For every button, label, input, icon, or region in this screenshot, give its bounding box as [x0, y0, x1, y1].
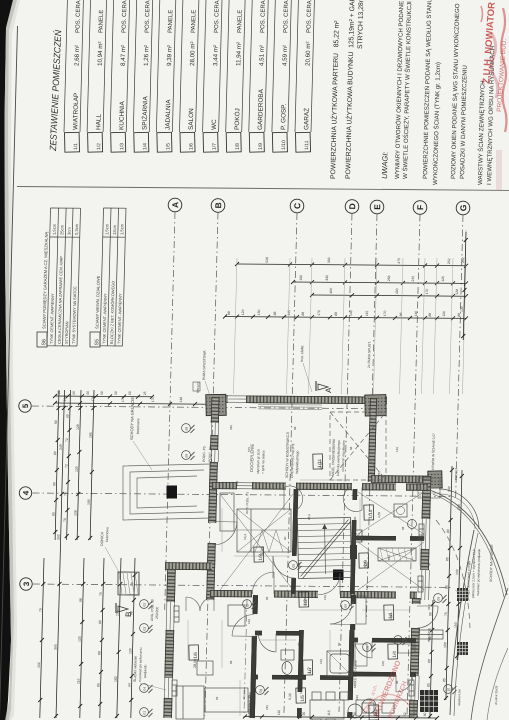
- svg-text:330: 330: [229, 425, 233, 430]
- svg-text:88: 88: [428, 313, 432, 317]
- svg-text:115: 115: [287, 310, 291, 316]
- svg-text:88: 88: [293, 426, 297, 430]
- svg-text:MOŻL. PRZENIESIENIA: MOŻL. PRZENIESIENIA: [330, 438, 336, 476]
- svg-text:DONICA: DONICA: [100, 531, 104, 546]
- svg-text:chodnikowy 0,125m: chodnikowy 0,125m: [247, 692, 252, 718]
- svg-text:02: 02: [143, 603, 147, 607]
- svg-text:88: 88: [334, 312, 338, 316]
- svg-text:PODEST: PODEST: [454, 467, 458, 480]
- svg-text:365: 365: [54, 644, 58, 650]
- svg-text:150: 150: [257, 309, 261, 315]
- svg-text:11,94 m²: 11,94 m²: [235, 42, 243, 66]
- svg-text:140: 140: [349, 310, 353, 316]
- svg-text:60: 60: [423, 712, 427, 716]
- svg-text:B: B: [124, 611, 133, 617]
- svg-text:32,5: 32,5: [427, 604, 431, 610]
- svg-text:88: 88: [301, 312, 305, 316]
- svg-text:140: 140: [447, 486, 451, 492]
- svg-text:1,26 m²: 1,26 m²: [143, 45, 151, 66]
- svg-text:120: 120: [441, 276, 445, 282]
- svg-text:90: 90: [428, 612, 432, 616]
- svg-text:1/5: 1/5: [165, 143, 171, 150]
- svg-text:PANELE: PANELE: [168, 10, 175, 33]
- svg-text:STRYCH 13,28m²: STRYCH 13,28m²: [357, 0, 365, 49]
- svg-text:85: 85: [427, 683, 431, 687]
- svg-text:01: 01: [143, 711, 147, 715]
- svg-text:190: 190: [299, 275, 303, 281]
- svg-text:128: 128: [74, 510, 78, 516]
- svg-text:POS. CERAM.: POS. CERAM.: [306, 0, 313, 33]
- svg-text:UWAGI:: UWAGI:: [380, 151, 390, 179]
- svg-text:60: 60: [66, 414, 70, 418]
- svg-text:528: 528: [265, 257, 269, 263]
- svg-text:160: 160: [455, 569, 459, 575]
- svg-text:90: 90: [283, 536, 287, 540]
- svg-text:4,51 m²: 4,51 m²: [258, 45, 266, 66]
- svg-text:170: 170: [91, 396, 95, 402]
- svg-text:1/11: 1/11: [304, 140, 310, 150]
- svg-text:03: 03: [143, 627, 147, 631]
- svg-text:5: 5: [21, 403, 30, 408]
- svg-text:WYS. PODŁ. P3: WYS. PODŁ. P3: [245, 492, 250, 514]
- svg-text:1/10: 1/10: [368, 509, 373, 519]
- svg-text:140: 140: [414, 311, 418, 317]
- svg-text:120: 120: [355, 695, 359, 700]
- svg-text:STYROPIAN: STYROPIAN: [64, 321, 70, 344]
- svg-text:88: 88: [349, 446, 353, 450]
- svg-text:120: 120: [128, 648, 132, 654]
- svg-text:10,94 m²: 10,94 m²: [97, 41, 105, 66]
- svg-text:14,4: 14,4: [243, 533, 247, 540]
- svg-text:164: 164: [299, 689, 303, 694]
- svg-text:1/8: 1/8: [235, 143, 241, 150]
- svg-text:116: 116: [77, 678, 81, 684]
- svg-text:85: 85: [96, 683, 100, 687]
- svg-text:88: 88: [227, 311, 231, 315]
- svg-text:182: 182: [114, 676, 118, 682]
- svg-text:opaska 0,5m: opaska 0,5m: [457, 688, 461, 706]
- svg-text:12cm: 12cm: [112, 224, 117, 235]
- svg-text:1/3: 1/3: [119, 143, 125, 150]
- svg-text:+ tynk na siatce: + tynk na siatce: [261, 450, 266, 474]
- svg-text:80: 80: [98, 620, 102, 624]
- svg-text:80: 80: [446, 529, 450, 533]
- svg-text:1,5cm: 1,5cm: [119, 223, 124, 235]
- svg-text:88: 88: [401, 526, 405, 530]
- svg-text:4,51: 4,51: [363, 561, 367, 568]
- svg-text:betonowa: betonowa: [105, 527, 109, 542]
- svg-text:330: 330: [327, 257, 331, 263]
- svg-text:35: 35: [302, 712, 306, 716]
- svg-text:1/7: 1/7: [212, 143, 218, 150]
- svg-text:PODC. P5: PODC. P5: [202, 446, 206, 462]
- svg-text:108: 108: [443, 642, 447, 648]
- svg-text:120: 120: [75, 466, 79, 472]
- svg-text:90: 90: [337, 642, 341, 646]
- svg-text:128: 128: [76, 424, 80, 430]
- svg-text:20,60 m²: 20,60 m²: [305, 41, 313, 66]
- svg-text:88: 88: [427, 659, 431, 663]
- svg-text:120: 120: [247, 619, 251, 624]
- svg-text:28,00 m²: 28,00 m²: [189, 41, 197, 66]
- svg-text:88: 88: [229, 660, 233, 664]
- svg-text:25,0: 25,0: [307, 514, 311, 520]
- svg-text:215: 215: [411, 276, 415, 282]
- svg-text:1,5cm: 1,5cm: [104, 223, 109, 235]
- svg-text:575: 575: [247, 447, 251, 452]
- svg-text:170: 170: [151, 396, 155, 402]
- svg-text:25cm: 25cm: [59, 224, 64, 235]
- svg-text:162: 162: [37, 662, 41, 668]
- svg-text:170: 170: [425, 289, 429, 295]
- svg-text:1/2: 1/2: [96, 143, 102, 150]
- svg-text:250/200: 250/200: [155, 607, 159, 619]
- svg-text:GARDEROBA: GARDEROBA: [257, 88, 265, 130]
- svg-text:ANG. POŁ. 53: ANG. POŁ. 53: [150, 599, 155, 621]
- svg-text:88: 88: [395, 680, 399, 684]
- svg-text:F: F: [415, 205, 425, 210]
- svg-text:1/9: 1/9: [258, 143, 264, 150]
- svg-text:245: 245: [265, 705, 269, 710]
- svg-text:148: 148: [179, 397, 183, 403]
- svg-text:262: 262: [56, 534, 60, 540]
- svg-text:90: 90: [411, 646, 415, 650]
- svg-text:B: B: [213, 202, 223, 208]
- svg-text:85: 85: [52, 512, 56, 516]
- svg-text:OTWÓR W ŚCIANIE 0,07: OTWÓR W ŚCIANIE 0,07: [430, 433, 436, 470]
- svg-text:SCHODY NA GRUNCIE: SCHODY NA GRUNCIE: [129, 397, 135, 440]
- svg-text:06: 06: [344, 604, 348, 608]
- svg-text:170: 170: [383, 310, 387, 316]
- svg-text:3,44 m²: 3,44 m²: [212, 45, 220, 66]
- svg-text:330: 330: [325, 275, 329, 281]
- svg-text:253: 253: [235, 481, 239, 486]
- svg-text:475: 475: [397, 258, 401, 264]
- svg-text:05: 05: [292, 564, 296, 568]
- svg-text:120: 120: [442, 311, 446, 317]
- svg-text:4: 4: [21, 490, 30, 495]
- svg-text:144: 144: [63, 396, 67, 402]
- svg-text:105: 105: [381, 661, 385, 666]
- svg-text:09: 09: [437, 597, 441, 601]
- svg-text:1/6: 1/6: [189, 143, 195, 150]
- svg-text:115: 115: [327, 710, 331, 716]
- svg-text:SALON: SALON: [188, 108, 196, 130]
- svg-text:130: 130: [460, 306, 464, 312]
- svg-text:120: 120: [241, 309, 245, 315]
- svg-text:185: 185: [89, 432, 93, 438]
- svg-text:30: 30: [353, 712, 357, 716]
- svg-text:120: 120: [319, 659, 323, 664]
- svg-text:88: 88: [297, 642, 301, 646]
- svg-text:ŚLĄSKI niebieski: ŚLĄSKI niebieski: [132, 656, 138, 682]
- svg-text:115: 115: [365, 311, 369, 317]
- svg-text:chodnik 35x35: chodnik 35x35: [494, 685, 498, 705]
- svg-text:POS. CERAM.: POS. CERAM.: [145, 0, 152, 33]
- svg-text:76: 76: [38, 608, 42, 612]
- svg-text:WC: WC: [211, 119, 218, 130]
- svg-text:105: 105: [365, 585, 369, 590]
- svg-text:betonowe: betonowe: [136, 418, 140, 434]
- svg-text:9,39 m²: 9,39 m²: [166, 45, 174, 66]
- svg-text:4,59: 4,59: [377, 511, 381, 518]
- svg-text:80: 80: [445, 557, 449, 561]
- svg-text:3: 3: [22, 581, 31, 586]
- svg-text:3cm: 3cm: [67, 227, 72, 235]
- svg-text:85: 85: [442, 678, 446, 682]
- svg-text:90: 90: [52, 482, 56, 486]
- svg-text:POS. CERAM.: POS. CERAM.: [260, 0, 267, 33]
- svg-text:88: 88: [273, 311, 277, 315]
- svg-text:72: 72: [65, 438, 69, 442]
- svg-text:08: 08: [366, 646, 370, 650]
- svg-text:1/4: 1/4: [142, 143, 148, 150]
- svg-text:88: 88: [427, 562, 431, 566]
- svg-text:70: 70: [63, 518, 67, 522]
- svg-text:4,59 m²: 4,59 m²: [282, 45, 290, 66]
- svg-text:88: 88: [297, 562, 301, 566]
- svg-text:80: 80: [445, 585, 449, 589]
- svg-text:60: 60: [114, 391, 118, 395]
- svg-text:S5: S5: [94, 339, 100, 346]
- svg-text:JADALNIA: JADALNIA: [165, 99, 173, 130]
- svg-text:POS. CERAM.: POS. CERAM.: [214, 0, 221, 33]
- svg-text:258: 258: [387, 275, 391, 281]
- svg-text:88: 88: [97, 651, 101, 655]
- svg-text:120: 120: [78, 636, 82, 642]
- svg-text:70: 70: [99, 592, 103, 596]
- svg-text:2,68 m²: 2,68 m²: [74, 45, 82, 66]
- svg-text:95: 95: [265, 596, 269, 600]
- svg-text:obrzeże: obrzeże: [242, 689, 246, 700]
- svg-text:A: A: [324, 387, 333, 393]
- svg-text:25: 25: [143, 391, 147, 395]
- svg-text:75: 75: [64, 492, 68, 496]
- svg-text:90: 90: [54, 420, 58, 424]
- svg-text:400: 400: [329, 288, 333, 294]
- svg-text:8,47 m²: 8,47 m²: [120, 45, 128, 66]
- svg-text:262: 262: [461, 257, 465, 263]
- svg-text:1/6: 1/6: [193, 652, 198, 659]
- svg-text:190: 190: [87, 499, 91, 505]
- svg-text:PANELE: PANELE: [191, 10, 198, 33]
- svg-text:Inst. elektr.: Inst. elektr.: [300, 345, 304, 362]
- svg-text:WIATROŁAP: WIATROŁAP: [72, 93, 80, 130]
- svg-text:1/5: 1/5: [300, 695, 305, 702]
- svg-text:120: 120: [323, 595, 327, 600]
- svg-text:E: E: [372, 204, 382, 210]
- svg-text:G: G: [458, 204, 468, 211]
- svg-text:D: D: [347, 203, 357, 209]
- svg-text:98: 98: [79, 598, 83, 602]
- svg-text:64: 64: [127, 683, 131, 687]
- svg-text:1,5cm: 1,5cm: [52, 223, 57, 235]
- svg-text:S6: S6: [41, 339, 47, 346]
- svg-text:C: C: [292, 203, 302, 209]
- svg-text:WEJŚCIE: WEJŚCIE: [426, 628, 431, 642]
- svg-text:POS. CERAM.: POS. CERAM.: [283, 0, 290, 33]
- svg-text:0f: 0f: [246, 604, 250, 607]
- svg-text:2,68: 2,68: [389, 613, 393, 620]
- svg-text:249: 249: [59, 444, 63, 450]
- svg-text:n/d komin regulacyjny: n/d komin regulacyjny: [341, 440, 346, 472]
- svg-text:170: 170: [121, 396, 125, 402]
- svg-text:P. GOSP.: P. GOSP.: [280, 103, 288, 130]
- svg-text:28,00: 28,00: [193, 659, 197, 668]
- svg-text:20,60: 20,60: [319, 461, 323, 470]
- svg-text:MEBLE KUCHENNE: MEBLE KUCHENNE: [353, 660, 358, 688]
- svg-text:90: 90: [353, 516, 357, 520]
- svg-text:POS. CERAM.: POS. CERAM.: [75, 0, 82, 33]
- svg-text:88: 88: [399, 312, 403, 316]
- svg-text:RW120: RW120: [196, 382, 200, 393]
- svg-text:07: 07: [397, 639, 401, 643]
- svg-text:PANELE: PANELE: [99, 10, 106, 33]
- svg-text:3,44: 3,44: [308, 667, 312, 674]
- svg-text:RURA SPUSTOWA: RURA SPUSTOWA: [202, 350, 207, 380]
- svg-text:PODC. P6: PODC. P6: [208, 446, 212, 462]
- svg-text:80: 80: [53, 451, 57, 455]
- svg-text:72: 72: [64, 464, 68, 468]
- svg-text:indywidualnego: indywidualnego: [295, 450, 300, 474]
- svg-text:262: 262: [447, 258, 451, 264]
- svg-text:60: 60: [72, 391, 76, 395]
- svg-text:60: 60: [86, 391, 90, 395]
- svg-text:PANELE: PANELE: [237, 10, 244, 33]
- svg-text:60: 60: [128, 391, 132, 395]
- svg-text:A: A: [170, 202, 180, 208]
- svg-text:430: 430: [395, 288, 399, 294]
- svg-text:110: 110: [277, 710, 281, 716]
- svg-text:1/10: 1/10: [281, 140, 287, 150]
- svg-text:9,39: 9,39: [288, 693, 292, 700]
- svg-text:60: 60: [100, 391, 104, 395]
- svg-text:128: 128: [455, 289, 459, 295]
- svg-text:0g: 0g: [259, 689, 263, 693]
- svg-text:04: 04: [143, 687, 147, 691]
- svg-text:68: 68: [185, 427, 189, 431]
- svg-text:HALL: HALL: [95, 113, 102, 130]
- svg-text:styropian gr 2cm: styropian gr 2cm: [256, 449, 261, 474]
- svg-text:170: 170: [317, 310, 321, 316]
- svg-text:95: 95: [215, 696, 219, 700]
- svg-text:69: 69: [185, 454, 189, 458]
- svg-text:88: 88: [457, 313, 461, 317]
- svg-text:252: 252: [377, 471, 381, 476]
- svg-text:10: 10: [447, 688, 451, 692]
- svg-text:10,94: 10,94: [303, 598, 307, 606]
- svg-text:1/4: 1/4: [392, 651, 397, 658]
- svg-text:POS. CERAM.: POS. CERAM.: [122, 0, 129, 33]
- svg-text:KUCHNIA: KUCHNIA: [118, 100, 126, 130]
- svg-text:120: 120: [395, 447, 399, 452]
- svg-text:1/1: 1/1: [73, 143, 79, 150]
- svg-text:75: 75: [444, 612, 448, 616]
- svg-text:0,3cm: 0,3cm: [74, 223, 79, 235]
- svg-text:2x RURA SPUST.: 2x RURA SPUST.: [367, 341, 372, 368]
- svg-text:podjazdu: podjazdu: [143, 664, 147, 678]
